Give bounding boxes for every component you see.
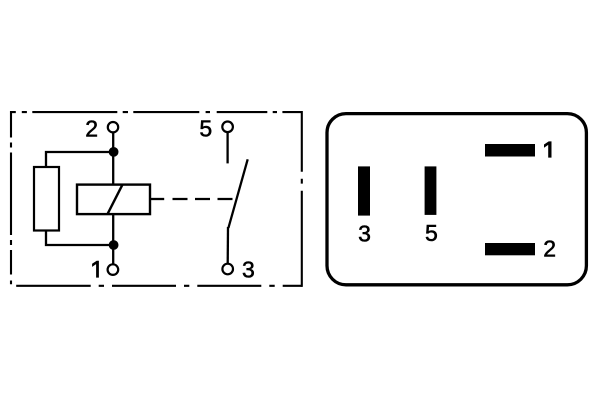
dash-dot enclosure border top	[11, 111, 302, 113]
terminal circle 3	[222, 264, 233, 275]
pin 3 blade	[358, 166, 370, 215]
svg-text:2: 2	[85, 115, 98, 141]
dash-dot enclosure border left	[10, 111, 12, 284]
resistor (parallel to coil)	[34, 167, 59, 231]
svg-text:2: 2	[543, 235, 556, 261]
junction node (top)	[109, 147, 119, 157]
pin 5 blade	[425, 166, 437, 215]
actuation link dashed line	[173, 198, 233, 200]
wire resistor branch top	[46, 152, 113, 168]
wire from blade pivot to terminal 3	[227, 227, 230, 264]
wire resistor branch bottom	[46, 230, 113, 246]
junction node (bottom)	[109, 240, 119, 250]
connector housing outline	[327, 114, 586, 285]
relay coil K	[77, 185, 150, 215]
actuation link solid lead from coil	[150, 198, 164, 200]
terminal circle 1	[108, 264, 119, 275]
dash-dot enclosure border bottom	[16, 285, 302, 287]
svg-text:5: 5	[199, 115, 212, 141]
wire from coil bottom to terminal 1	[112, 214, 114, 264]
terminal circle 5	[222, 122, 233, 133]
svg-text:3: 3	[358, 220, 371, 246]
wire from terminal 2 to coil top	[112, 132, 114, 185]
pin 2 blade	[485, 243, 535, 255]
pin 1 blade	[485, 144, 535, 157]
svg-text:3: 3	[242, 256, 255, 282]
pin label 1 (custom helvetica-style glyph)	[544, 141, 552, 157]
terminal circle 2	[108, 122, 118, 132]
switch blade (movable contact)	[228, 159, 247, 228]
wire from terminal 5 down to contact	[226, 132, 228, 163]
dash-dot enclosure border right	[301, 111, 303, 287]
svg-text:5: 5	[425, 220, 438, 246]
label 1 (coil terminal, custom helvetica-style glyph)	[92, 261, 99, 278]
